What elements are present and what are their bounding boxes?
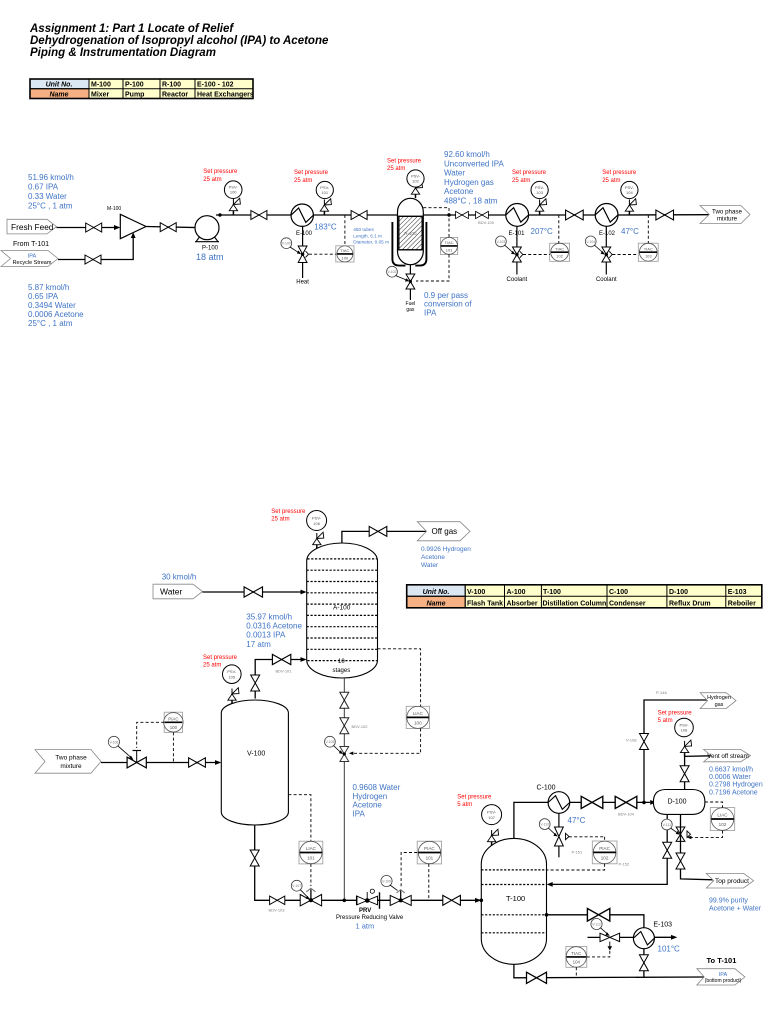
hydrogen gas sink box bbox=[700, 693, 736, 709]
valve to two phase box bbox=[656, 210, 674, 220]
svg-text:BDV-101: BDV-101 bbox=[276, 669, 293, 674]
blowdown valve BDV-104 bbox=[615, 796, 637, 808]
svg-text:92.60 kmol/h: 92.60 kmol/h bbox=[444, 150, 490, 159]
instrument bubble condenser valve bbox=[539, 819, 550, 830]
wire water line bbox=[203, 591, 304, 593]
svg-text:100: 100 bbox=[414, 721, 422, 726]
svg-text:V-106: V-106 bbox=[109, 740, 118, 744]
svg-text:Unit No.: Unit No. bbox=[46, 82, 73, 89]
svg-text:Distillation Column: Distillation Column bbox=[543, 600, 607, 607]
reboiler heat control valve bbox=[600, 933, 620, 941]
svg-text:To T-101: To T-101 bbox=[707, 956, 737, 965]
top product sink box bbox=[706, 873, 753, 888]
svg-text:47°C: 47°C bbox=[621, 227, 639, 236]
svg-text:LIAC: LIAC bbox=[306, 846, 317, 851]
drum level control valve bbox=[676, 827, 685, 841]
svg-text:Two phase: Two phase bbox=[712, 208, 742, 215]
svg-text:V-100: V-100 bbox=[282, 242, 291, 246]
svg-text:Off gas: Off gas bbox=[432, 527, 458, 536]
controller PIAC-102 bbox=[592, 841, 617, 864]
absorber liquid data bbox=[246, 613, 302, 649]
svg-text:488°C , 18 atm: 488°C , 18 atm bbox=[444, 197, 498, 206]
svg-text:BDV-100: BDV-100 bbox=[478, 220, 495, 225]
top product purity bbox=[709, 898, 762, 913]
wire off gas line bbox=[342, 531, 426, 546]
svg-text:R-100: R-100 bbox=[162, 82, 181, 89]
svg-text:Set pressure: Set pressure bbox=[387, 159, 422, 165]
svg-text:101: 101 bbox=[307, 856, 315, 861]
svg-text:102: 102 bbox=[556, 254, 563, 259]
svg-text:Set pressure: Set pressure bbox=[271, 509, 306, 515]
signal LIAC-101 to valve bbox=[310, 864, 312, 886]
V-100 feed control valve bbox=[127, 757, 146, 768]
svg-text:PIAC: PIAC bbox=[424, 846, 435, 851]
signal line TIC-100 bbox=[344, 215, 346, 246]
svg-text:V-100: V-100 bbox=[247, 751, 265, 758]
svg-text:0.9926 Hydrogen: 0.9926 Hydrogen bbox=[421, 546, 471, 553]
svg-text:102: 102 bbox=[412, 179, 419, 184]
svg-text:Reflux Drum: Reflux Drum bbox=[669, 600, 711, 607]
svg-text:conversion of: conversion of bbox=[424, 300, 472, 309]
valve V-100 overhead bbox=[251, 675, 260, 691]
off gas composition bbox=[421, 546, 471, 569]
svg-text:A-100: A-100 bbox=[507, 589, 526, 596]
water source box bbox=[153, 584, 203, 599]
svg-text:Dehydrogenation of Isopropyl a: Dehydrogenation of Isopropyl alcohol (IP… bbox=[30, 35, 329, 47]
reboiler E-103 bbox=[633, 928, 654, 949]
svg-text:10: 10 bbox=[338, 659, 345, 665]
svg-text:E-102: E-102 bbox=[599, 231, 616, 237]
valve hydrogen line bbox=[640, 734, 649, 750]
wire reflux line bbox=[550, 814, 668, 884]
instrument bubble T-100 feed valve bbox=[381, 875, 392, 886]
signal absorber level bbox=[378, 649, 421, 707]
svg-text:Top product: Top product bbox=[715, 878, 749, 885]
svg-text:0.9608 Water: 0.9608 Water bbox=[353, 783, 401, 792]
wire E-102 to box bbox=[618, 214, 709, 216]
svg-text:Name: Name bbox=[49, 92, 68, 99]
svg-text:A-100: A-100 bbox=[333, 605, 351, 612]
svg-text:Vent off stream: Vent off stream bbox=[707, 753, 749, 760]
svg-text:25 atm: 25 atm bbox=[203, 663, 221, 669]
IPA bottom product sink box bbox=[697, 969, 745, 985]
instrument bubble E-102 valve bbox=[585, 236, 596, 247]
wire T-100 overhead bbox=[514, 802, 548, 838]
valve reboiler draw bbox=[587, 909, 609, 922]
valve mixer outlet bbox=[160, 223, 176, 232]
wire condenser outlet bbox=[570, 801, 651, 803]
svg-text:Acetone: Acetone bbox=[444, 187, 474, 196]
svg-text:Acetone: Acetone bbox=[353, 801, 383, 810]
svg-text:V-109: V-109 bbox=[382, 880, 391, 884]
stream data feed bbox=[28, 173, 74, 211]
signal TIAC-104 bbox=[575, 967, 577, 978]
svg-text:5.87 kmol/h: 5.87 kmol/h bbox=[28, 283, 69, 292]
svg-text:Condenser: Condenser bbox=[609, 600, 646, 607]
svg-text:IPA: IPA bbox=[719, 972, 728, 978]
svg-text:PIAC: PIAC bbox=[599, 846, 610, 851]
svg-text:0.0006 Acetone: 0.0006 Acetone bbox=[28, 310, 84, 319]
wire reboiler draw line bbox=[547, 915, 644, 928]
svg-text:TIAC: TIAC bbox=[555, 246, 564, 251]
svg-text:1 atm: 1 atm bbox=[356, 922, 375, 931]
blowdown valve BDV-101 bbox=[272, 654, 290, 664]
svg-text:gas: gas bbox=[715, 702, 724, 708]
svg-text:Set pressure: Set pressure bbox=[203, 655, 238, 661]
controller PIAC-100 bbox=[164, 712, 183, 732]
svg-text:30 kmol/h: 30 kmol/h bbox=[162, 573, 197, 582]
svg-text:108: 108 bbox=[681, 728, 688, 733]
svg-text:T-100: T-100 bbox=[543, 589, 561, 596]
IPA recycle source box bbox=[1, 251, 58, 267]
signal PIAC-100 bbox=[137, 722, 165, 748]
svg-text:IPA: IPA bbox=[424, 308, 437, 317]
svg-text:107: 107 bbox=[488, 815, 495, 820]
instrument bubble feed valve bbox=[108, 736, 119, 747]
svg-text:M-100: M-100 bbox=[91, 82, 111, 89]
svg-text:Hydrogen gas: Hydrogen gas bbox=[444, 178, 494, 187]
instrument bubble level valve bbox=[291, 880, 302, 891]
svg-text:25 atm: 25 atm bbox=[387, 166, 405, 172]
two phase mixture sink box top bbox=[700, 206, 750, 224]
svg-text:IPA: IPA bbox=[28, 253, 37, 259]
svg-text:LIAC: LIAC bbox=[717, 813, 728, 818]
svg-text:207°C: 207°C bbox=[531, 227, 554, 236]
wire pump discharge main line bbox=[216, 214, 292, 216]
svg-text:V-104: V-104 bbox=[586, 240, 595, 244]
V-100 level control valve bbox=[300, 895, 321, 906]
signal column pressure tap bbox=[547, 864, 605, 870]
svg-text:C-100: C-100 bbox=[537, 785, 556, 792]
svg-text:0.65 IPA: 0.65 IPA bbox=[28, 292, 59, 301]
svg-text:mixture: mixture bbox=[717, 216, 738, 223]
svg-text:TIAC: TIAC bbox=[445, 240, 454, 245]
controller PIAC-101 bbox=[417, 841, 441, 864]
valve vent bbox=[680, 766, 689, 782]
reactor R-100 furnace jacket bbox=[392, 222, 426, 266]
instrument bubble fuel valve bbox=[387, 266, 398, 277]
svg-text:25 atm: 25 atm bbox=[203, 177, 221, 183]
svg-text:V-110: V-110 bbox=[540, 823, 549, 827]
svg-text:102: 102 bbox=[601, 856, 609, 861]
wire V-100 vapor to absorber bbox=[255, 660, 303, 699]
svg-text:Assignment 1: Part 1 Locate of: Assignment 1: Part 1 Locate of Relief bbox=[29, 23, 234, 35]
svg-text:E-100: E-100 bbox=[296, 231, 313, 237]
reactor tube data bbox=[353, 227, 389, 245]
wire mixer to pump bbox=[146, 227, 203, 228]
controller LIAC-102 bbox=[710, 808, 734, 831]
svg-text:TIAC: TIAC bbox=[340, 248, 349, 253]
svg-text:Coolant: Coolant bbox=[507, 277, 528, 283]
svg-text:Set pressure: Set pressure bbox=[602, 170, 637, 176]
svg-text:PIAC: PIAC bbox=[168, 716, 178, 721]
valve water bbox=[244, 587, 262, 597]
svg-text:103: 103 bbox=[645, 254, 652, 259]
svg-text:BDV-103: BDV-103 bbox=[269, 908, 286, 913]
svg-text:25 atm: 25 atm bbox=[512, 178, 530, 184]
svg-text:25 atm: 25 atm bbox=[294, 178, 312, 184]
valve before T-100 bbox=[443, 895, 461, 905]
svg-text:101: 101 bbox=[321, 190, 328, 195]
wire absorber bottoms bbox=[343, 678, 345, 900]
flash tank V-100 vessel bbox=[221, 700, 288, 825]
svg-text:25 atm: 25 atm bbox=[602, 178, 620, 184]
svg-text:102: 102 bbox=[719, 822, 727, 827]
svg-text:51.96 kmol/h: 51.96 kmol/h bbox=[28, 173, 74, 182]
svg-text:17 atm: 17 atm bbox=[246, 640, 271, 649]
T-100 feed control valve bbox=[390, 895, 411, 905]
svg-text:101: 101 bbox=[426, 856, 434, 861]
valve feed bbox=[86, 223, 102, 232]
svg-text:Flash Tank: Flash Tank bbox=[467, 600, 503, 607]
svg-text:V-107: V-107 bbox=[292, 884, 301, 888]
svg-text:Recycle Stream: Recycle Stream bbox=[13, 260, 52, 266]
svg-text:Unit No.: Unit No. bbox=[423, 589, 450, 596]
heat exchanger E-100 bbox=[291, 204, 313, 226]
vent off stream sink box bbox=[704, 749, 751, 761]
valve condenser outlet bbox=[581, 796, 603, 808]
controller TIC-102 bbox=[550, 243, 570, 261]
wire top product bbox=[681, 814, 714, 879]
wire vent line bbox=[685, 756, 711, 790]
svg-text:P-152: P-152 bbox=[619, 862, 630, 867]
wire recycle line bbox=[58, 236, 133, 260]
svg-text:Name: Name bbox=[426, 600, 445, 607]
svg-text:Heat Exchangers: Heat Exchangers bbox=[197, 92, 254, 99]
Fresh Feed source box bbox=[7, 219, 57, 234]
svg-text:25 atm: 25 atm bbox=[271, 517, 289, 523]
svg-text:Piping & Instrumentation Diagr: Piping & Instrumentation Diagram bbox=[30, 47, 216, 59]
absorber A-100 vessel bbox=[307, 543, 378, 678]
wire V-100 feed bbox=[101, 762, 218, 764]
svg-text:Pump: Pump bbox=[125, 92, 144, 99]
off gas sink box bbox=[417, 522, 470, 541]
svg-text:Reboiler: Reboiler bbox=[728, 600, 756, 607]
svg-text:104: 104 bbox=[573, 959, 581, 964]
controller TIAC-104 bbox=[566, 947, 587, 968]
svg-text:P-148: P-148 bbox=[656, 690, 667, 695]
svg-text:T-100: T-100 bbox=[506, 894, 525, 903]
conversion note bbox=[424, 291, 472, 317]
svg-text:Two phase: Two phase bbox=[55, 755, 87, 762]
column trays bbox=[481, 870, 546, 933]
reflux drum D-100 bbox=[653, 790, 705, 815]
vent composition bbox=[709, 767, 763, 797]
blowdown valve BDV-103 bbox=[270, 896, 285, 905]
svg-text:0.0316 Acetone: 0.0316 Acetone bbox=[246, 622, 302, 631]
svg-text:Hydrogen: Hydrogen bbox=[353, 792, 388, 801]
svg-text:100: 100 bbox=[170, 725, 178, 730]
svg-text:0.6637 kmol/h: 0.6637 kmol/h bbox=[709, 767, 753, 774]
svg-text:5 atm: 5 atm bbox=[658, 718, 673, 724]
svg-text:IPA: IPA bbox=[353, 809, 366, 818]
svg-text:Water: Water bbox=[421, 562, 439, 569]
valve reflux bbox=[663, 842, 672, 858]
wire PRV line bbox=[344, 899, 478, 901]
valve reboiler bottoms bbox=[639, 955, 648, 971]
svg-text:106: 106 bbox=[313, 521, 320, 526]
svg-text:35.97 kmol/h: 35.97 kmol/h bbox=[246, 613, 292, 622]
valve bottom product bbox=[527, 972, 547, 983]
svg-text:E-100 - 102: E-100 - 102 bbox=[197, 82, 234, 89]
wire reboiler bottoms bbox=[643, 949, 645, 978]
svg-text:0.2798 Hydrogen: 0.2798 Hydrogen bbox=[709, 782, 763, 789]
svg-text:Diameter, 0.05 m: Diameter, 0.05 m bbox=[353, 240, 389, 245]
signal V-100 level bbox=[288, 795, 311, 842]
svg-text:Set pressure: Set pressure bbox=[294, 170, 329, 176]
wire reboiler vapor return bbox=[654, 936, 673, 938]
svg-text:C-100: C-100 bbox=[609, 589, 628, 596]
wire reactor outlet bbox=[423, 214, 506, 216]
valve E101-E102 bbox=[566, 210, 584, 220]
valve reactor outlet 1 bbox=[456, 211, 469, 218]
svg-text:0.67 IPA: 0.67 IPA bbox=[28, 183, 59, 192]
svg-text:Fresh Feed: Fresh Feed bbox=[11, 222, 54, 232]
svg-text:P-100: P-100 bbox=[125, 82, 144, 89]
instrument bubble reflux bbox=[661, 819, 672, 830]
svg-text:PSV-: PSV- bbox=[487, 810, 497, 815]
junction T-100 feed bbox=[480, 899, 484, 903]
svg-text:gas: gas bbox=[406, 307, 415, 313]
signal lines TIC-102 bbox=[558, 215, 560, 243]
fuel gas control valve bbox=[409, 265, 411, 274]
unit table bottom bbox=[407, 585, 762, 608]
svg-text:99.9% purity: 99.9% purity bbox=[709, 898, 748, 905]
svg-text:Heat: Heat bbox=[296, 280, 309, 286]
svg-text:Unconverted IPA: Unconverted IPA bbox=[444, 159, 505, 168]
svg-text:Set pressure: Set pressure bbox=[658, 711, 693, 717]
svg-text:104: 104 bbox=[626, 190, 633, 195]
instrument bubble E-101 valve bbox=[496, 236, 507, 247]
signal line reactor to TIC-101 bbox=[423, 208, 449, 238]
instrument bubble reboiler draw bbox=[591, 918, 602, 929]
svg-text:V-103: V-103 bbox=[496, 240, 505, 244]
svg-text:25°C , 1 atm: 25°C , 1 atm bbox=[28, 202, 73, 211]
svg-text:P-151: P-151 bbox=[572, 850, 583, 855]
column T-100 vessel bbox=[481, 838, 546, 964]
svg-text:stages: stages bbox=[333, 668, 351, 674]
svg-text:100: 100 bbox=[230, 190, 237, 195]
svg-text:PRV: PRV bbox=[359, 908, 371, 914]
condenser pressure control valve bbox=[558, 813, 560, 827]
svg-text:183°C: 183°C bbox=[314, 223, 337, 232]
svg-text:TIAC: TIAC bbox=[644, 246, 653, 251]
svg-text:D-100: D-100 bbox=[669, 589, 688, 596]
svg-text:LIAC: LIAC bbox=[413, 711, 424, 716]
svg-text:Hydrogen: Hydrogen bbox=[707, 695, 731, 701]
svg-text:Pressure Reducing Valve: Pressure Reducing Valve bbox=[336, 915, 404, 921]
unit table top bbox=[30, 79, 253, 99]
svg-text:From T-101: From T-101 bbox=[13, 241, 49, 248]
wire V-100 bottoms bbox=[255, 825, 345, 900]
svg-text:Set pressure: Set pressure bbox=[512, 170, 547, 176]
svg-text:101°C: 101°C bbox=[658, 945, 681, 954]
svg-text:Coolant: Coolant bbox=[596, 277, 617, 283]
valve top product bbox=[676, 853, 685, 869]
heat exchanger E-102 bbox=[595, 204, 618, 227]
signal drum level bbox=[705, 802, 723, 808]
svg-text:Set pressure: Set pressure bbox=[457, 795, 492, 801]
svg-text:P-100: P-100 bbox=[202, 246, 219, 252]
svg-text:105: 105 bbox=[228, 674, 235, 679]
pressure reducing valve PRV bbox=[357, 889, 380, 909]
valve V-100 feed 2 bbox=[189, 758, 206, 767]
instrument bubble absorber valve bbox=[325, 736, 336, 747]
svg-text:100: 100 bbox=[342, 255, 349, 260]
two phase mixture source box bbox=[35, 750, 101, 774]
signal condenser valve to PIAC-102 bbox=[569, 836, 605, 838]
valve before reactor bbox=[351, 211, 367, 220]
blowdown valve BDV-100 bbox=[476, 211, 489, 218]
svg-text:V-108: V-108 bbox=[626, 738, 637, 743]
heat exchanger E-101 bbox=[506, 204, 529, 227]
wire feed line bbox=[57, 227, 118, 229]
svg-text:PSV-: PSV- bbox=[312, 516, 322, 521]
svg-text:18 atm: 18 atm bbox=[196, 252, 224, 262]
pump P-100 bbox=[195, 216, 219, 240]
svg-text:103: 103 bbox=[536, 190, 543, 195]
svg-text:TIAC: TIAC bbox=[571, 951, 581, 956]
valve off gas bbox=[369, 526, 387, 536]
absorber level control valve bbox=[340, 747, 349, 762]
svg-text:Absorber: Absorber bbox=[507, 600, 538, 607]
svg-text:V-111: V-111 bbox=[663, 823, 671, 827]
svg-text:R-100: R-100 bbox=[404, 231, 417, 236]
flash liquid data bbox=[353, 783, 401, 818]
signal line TIC-101 to fuel valve bbox=[416, 255, 449, 282]
svg-text:Mixer: Mixer bbox=[91, 92, 110, 99]
svg-text:E-103: E-103 bbox=[728, 589, 747, 596]
junction absorber line bbox=[343, 899, 347, 903]
svg-text:0.33 Water: 0.33 Water bbox=[28, 192, 67, 201]
blowdown valve BDV-102 bbox=[340, 718, 349, 734]
reactor R-100 vessel bbox=[398, 198, 424, 264]
svg-text:0.9 per pass: 0.9 per pass bbox=[424, 291, 468, 300]
E-100 heating control valve bbox=[302, 226, 304, 246]
absorber trays bbox=[307, 559, 378, 661]
svg-text:BDV-104: BDV-104 bbox=[618, 812, 635, 817]
svg-text:0.3494 Water: 0.3494 Water bbox=[28, 301, 76, 310]
controller TIC-101 bbox=[441, 237, 458, 254]
wire hydrogen gas line bbox=[644, 700, 707, 802]
svg-text:25°C , 1 atm: 25°C , 1 atm bbox=[28, 319, 73, 328]
valve pump to E-100 bbox=[251, 211, 267, 220]
svg-text:V-112: V-112 bbox=[592, 923, 601, 927]
controller TIC-100 bbox=[336, 246, 354, 262]
controller LIAC-100 bbox=[406, 706, 429, 728]
svg-text:450 tubes: 450 tubes bbox=[353, 227, 374, 232]
svg-text:E-103: E-103 bbox=[653, 922, 672, 929]
svg-text:5 atm: 5 atm bbox=[457, 802, 472, 808]
svg-text:0.7196 Acetone: 0.7196 Acetone bbox=[709, 789, 758, 796]
wire reboiler steam stub bbox=[588, 936, 634, 938]
svg-text:Reactor: Reactor bbox=[162, 92, 188, 99]
junction hydrogen branch bbox=[642, 801, 646, 805]
svg-text:Water: Water bbox=[160, 587, 183, 597]
stream data recycle bbox=[28, 283, 84, 328]
svg-text:0.0006 Water: 0.0006 Water bbox=[709, 774, 751, 781]
svg-text:(bottom product): (bottom product) bbox=[705, 978, 742, 984]
condenser C-100 bbox=[548, 792, 570, 814]
svg-text:Length, 6.1 m: Length, 6.1 m bbox=[353, 233, 382, 238]
valve recycle bbox=[85, 255, 101, 264]
svg-text:D-100: D-100 bbox=[668, 799, 687, 806]
signal lines TIC-103 bbox=[647, 215, 649, 243]
controller TIC-103 bbox=[638, 243, 658, 261]
instrument bubble at E-100 valve bbox=[281, 238, 292, 249]
svg-text:mixture: mixture bbox=[60, 763, 82, 770]
svg-text:V-100: V-100 bbox=[467, 589, 485, 596]
